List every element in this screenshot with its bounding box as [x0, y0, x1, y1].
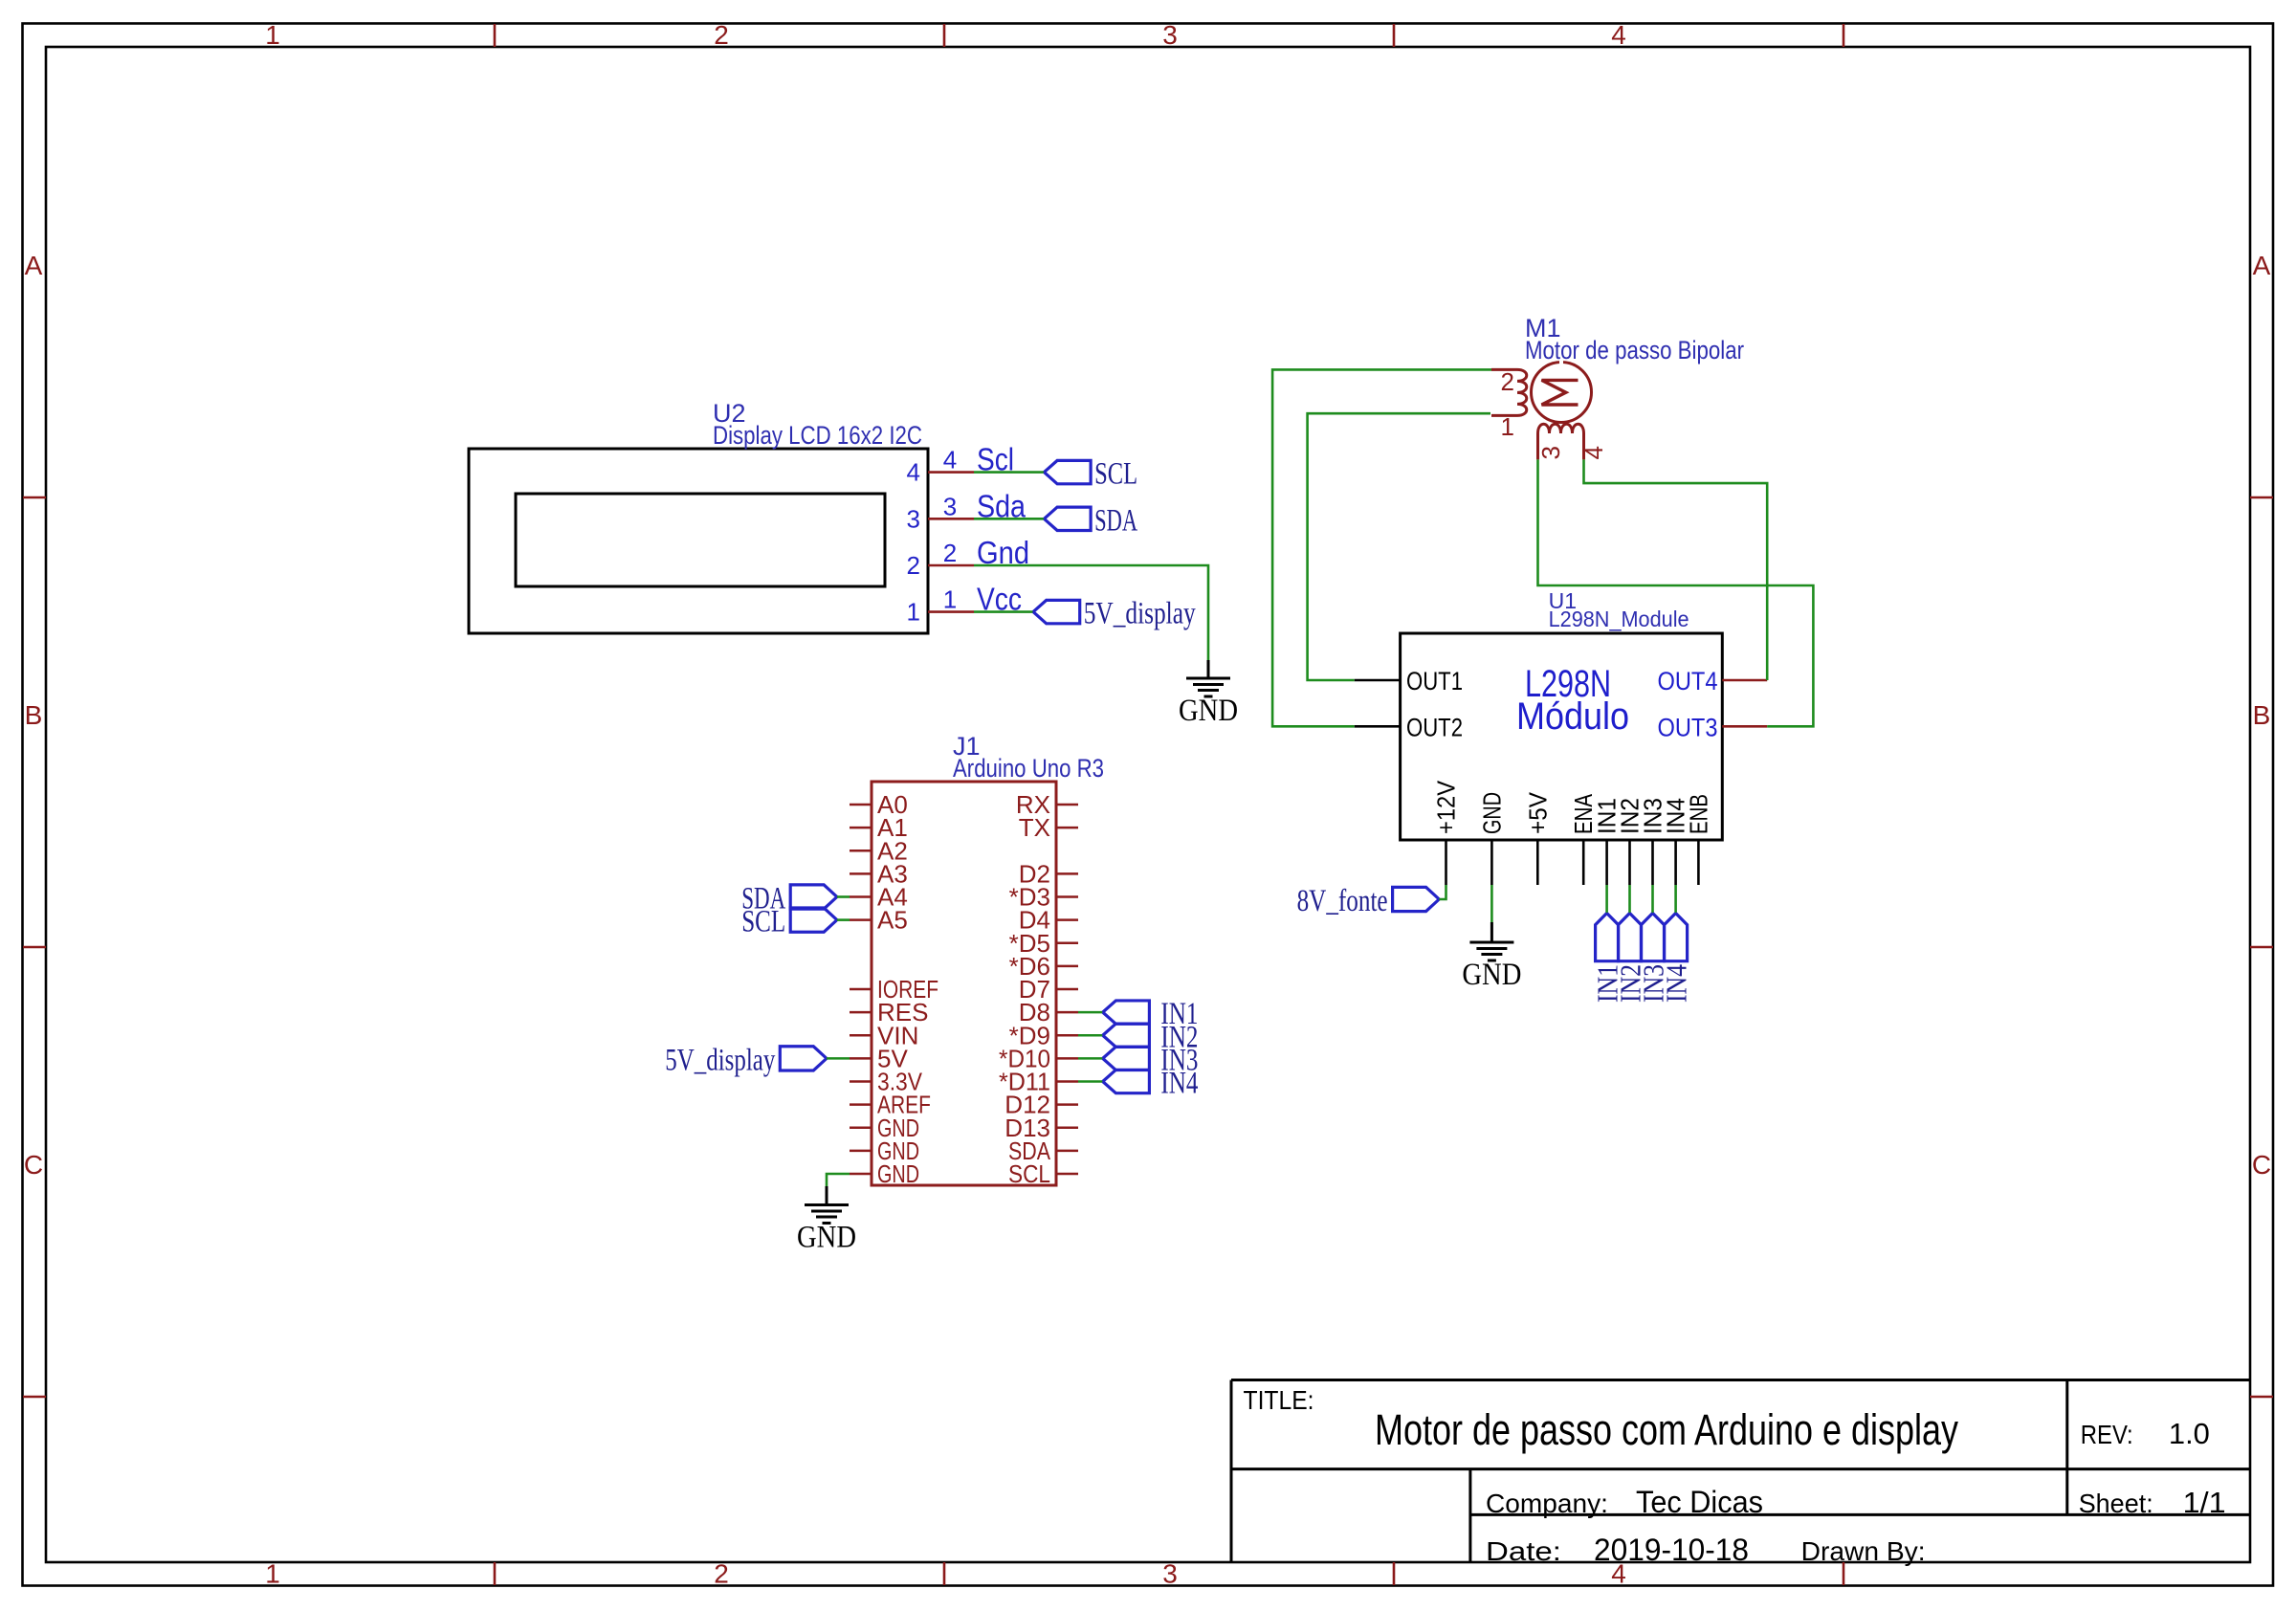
svg-text:SCL: SCL [1094, 457, 1137, 492]
svg-text:TITLE:: TITLE: [1244, 1385, 1314, 1415]
U1 bottom pin IN4 [1674, 840, 1677, 885]
J1 left pin GND [850, 1126, 872, 1129]
J1 right pin D12 [1056, 1103, 1078, 1106]
U1 bottom pin IN2 [1628, 840, 1631, 885]
wire D11 to IN4 flag [1078, 1080, 1103, 1083]
wire U1 IN2 pin to flag [1628, 885, 1631, 914]
svg-text:4: 4 [943, 446, 957, 474]
svg-text:+5V: +5V [1523, 791, 1552, 834]
svg-text:2: 2 [1501, 367, 1514, 396]
U2 pin 1 (Vcc) [928, 610, 974, 613]
J1 right pin *D9 [1056, 1034, 1078, 1037]
svg-text:SCL: SCL [741, 905, 785, 939]
net flag SDA at A4 [790, 885, 837, 909]
svg-text:GND: GND [1179, 694, 1238, 728]
net flag IN3 (under U1) [1642, 914, 1665, 961]
U1 pin OUT1 [1355, 679, 1401, 682]
component U1 L298N_Module [1401, 633, 1723, 840]
net flag IN1 [1103, 1001, 1150, 1024]
svg-text:5V_display: 5V_display [665, 1043, 775, 1077]
J1 left pin GND [850, 1150, 872, 1153]
U2 pin 4 (Scl) [928, 471, 974, 474]
J1 left pin A1 [850, 827, 872, 829]
J1 left pin A3 [850, 872, 872, 875]
svg-text:3: 3 [1162, 1559, 1178, 1589]
svg-text:SCL: SCL [1008, 1159, 1050, 1188]
svg-text:3: 3 [943, 492, 957, 520]
wire Gnd to ground [974, 565, 1208, 660]
U1 bottom pin ENB [1697, 840, 1700, 885]
ground GND (display) [1207, 660, 1210, 678]
svg-text:5V_display: 5V_display [1084, 597, 1196, 631]
svg-text:A: A [25, 251, 43, 280]
J1 left pin IOREF [850, 988, 872, 991]
net flag IN3 [1103, 1047, 1150, 1070]
net flag 5V_display at 5V [780, 1047, 827, 1070]
svg-text:+12V: +12V [1432, 780, 1461, 834]
svg-text:Tec Dicas: Tec Dicas [1636, 1485, 1763, 1519]
svg-text:Drawn By:: Drawn By: [1801, 1536, 1926, 1566]
wire Sda to SDA flag [974, 518, 1044, 520]
J1 left pin A4 [850, 895, 872, 898]
svg-text:Company:: Company: [1486, 1489, 1608, 1518]
frame tick marks [494, 24, 497, 47]
J1 left pin VIN [850, 1034, 872, 1037]
U1 bottom pin IN3 [1651, 840, 1654, 885]
J1 left pin A5 [850, 918, 872, 921]
svg-text:8V_fonte: 8V_fonte [1297, 884, 1388, 918]
J1 right pin RX [1056, 804, 1078, 806]
U1 bottom pin GND [1490, 840, 1493, 885]
J1 left pin 3.3V [850, 1080, 872, 1083]
svg-text:OUT3: OUT3 [1658, 713, 1718, 741]
svg-text:Motor de passo com Arduino e d: Motor de passo com Arduino e display [1375, 1405, 1958, 1454]
wire D8 to IN1 flag [1078, 1011, 1103, 1014]
svg-text:3: 3 [1536, 446, 1565, 459]
U1 bottom pin +12V [1445, 840, 1447, 885]
U2 pin 2 (Gnd) [928, 564, 974, 567]
svg-text:1: 1 [907, 598, 920, 627]
svg-text:A5: A5 [877, 906, 908, 935]
svg-text:ENB: ENB [1684, 794, 1712, 834]
wire D9 to IN2 flag [1078, 1034, 1103, 1037]
J1 right pin D2 [1056, 872, 1078, 875]
net flag 5V_display [1033, 600, 1080, 623]
U1 bottom pin ENA [1582, 840, 1585, 885]
svg-text:SDA: SDA [1094, 503, 1137, 538]
M1 coil B (pins 3,4) [1538, 424, 1584, 459]
wire Scl to SCL flag [974, 471, 1044, 474]
wire M1 pin1 to OUT1 [1308, 413, 1490, 680]
net flag 8V_fonte [1393, 887, 1440, 911]
wire GND pin to ground [827, 1174, 850, 1186]
U1 pin OUT2 [1355, 725, 1401, 728]
svg-text:Motor de passo Bipolar: Motor de passo Bipolar [1525, 336, 1744, 364]
svg-text:2: 2 [714, 1559, 729, 1589]
wire 8V_fonte to +12V [1439, 885, 1446, 899]
wire M1 pin3 to OUT3 [1538, 459, 1814, 726]
J1 right pin *D11 [1056, 1080, 1078, 1083]
svg-text:REV:: REV: [2081, 1420, 2133, 1449]
net flag IN2 (under U1) [1619, 914, 1642, 961]
svg-text:4: 4 [907, 458, 920, 487]
svg-text:L298N_Module: L298N_Module [1549, 607, 1689, 631]
svg-text:IN4: IN4 [1660, 964, 1693, 1003]
svg-text:1: 1 [265, 1559, 280, 1589]
wire Vcc to 5V_display flag [974, 610, 1033, 613]
svg-text:Arduino Uno R3: Arduino Uno R3 [953, 754, 1104, 783]
svg-text:3: 3 [907, 504, 920, 533]
U1 bottom pin IN1 [1605, 840, 1608, 885]
J1 right pin D8 [1056, 1011, 1078, 1014]
ground GND (arduino) [826, 1186, 828, 1205]
J1 left pin 5V [850, 1057, 872, 1060]
wire 5V_display flag to 5V pin [827, 1057, 850, 1060]
net flag IN1 (under U1) [1596, 914, 1619, 961]
J1 right pin *D5 [1056, 941, 1078, 944]
motor circle with M [1532, 363, 1592, 423]
svg-text:4: 4 [1611, 20, 1626, 50]
U1 bottom pin +5V [1536, 840, 1539, 885]
svg-text:1: 1 [265, 20, 280, 50]
U1 pin OUT3 [1722, 725, 1767, 728]
J1 right pin D7 [1056, 988, 1078, 991]
svg-text:GND: GND [797, 1221, 856, 1255]
wire M1 pin4 to OUT4 [1584, 459, 1768, 680]
J1 left pin GND [850, 1173, 872, 1176]
J1 left pin RES [850, 1011, 872, 1014]
net flag IN4 [1103, 1070, 1150, 1092]
ground GND (L298N) [1490, 922, 1493, 942]
svg-text:4: 4 [1579, 446, 1608, 459]
svg-text:Sheet:: Sheet: [2079, 1489, 2153, 1518]
J1 left pin AREF [850, 1103, 872, 1106]
wire D10 to IN3 flag [1078, 1057, 1103, 1060]
svg-text:A: A [2253, 251, 2271, 280]
svg-text:OUT1: OUT1 [1406, 667, 1463, 695]
J1 right pin *D3 [1056, 895, 1078, 898]
svg-text:3: 3 [1162, 20, 1178, 50]
wire U1 IN3 pin to flag [1651, 885, 1654, 914]
wire SDA flag to A4 [837, 895, 850, 898]
net flag SCL [1044, 460, 1091, 483]
svg-text:1.0: 1.0 [2169, 1417, 2210, 1450]
svg-text:2019-10-18: 2019-10-18 [1594, 1533, 1749, 1567]
component J1 Arduino Uno R3 [872, 782, 1056, 1185]
svg-text:C: C [2252, 1150, 2271, 1180]
J1 left pin A0 [850, 804, 872, 806]
net flag IN2 [1103, 1024, 1150, 1047]
J1 right pin TX [1056, 827, 1078, 829]
svg-text:Date:: Date: [1486, 1536, 1561, 1566]
wire U1 IN1 pin to flag [1605, 885, 1608, 914]
wire U1 IN4 pin to flag [1674, 885, 1677, 914]
svg-text:GND: GND [1462, 958, 1521, 992]
component U2 Display LCD 16x2 I2C [469, 449, 928, 633]
svg-text:OUT2: OUT2 [1406, 713, 1463, 741]
wire U1 GND to ground [1490, 885, 1493, 922]
svg-text:IN4: IN4 [1160, 1067, 1198, 1101]
svg-text:GND: GND [1477, 792, 1506, 834]
svg-text:2: 2 [714, 20, 729, 50]
U2 pin 3 (Sda) [928, 518, 974, 520]
svg-text:Display LCD 16x2 I2C: Display LCD 16x2 I2C [713, 421, 922, 450]
J1 right pin SCL [1056, 1173, 1078, 1176]
net flag IN4 (under U1) [1665, 914, 1688, 961]
svg-text:1/1: 1/1 [2183, 1486, 2226, 1519]
net flag SCL at A5 [790, 908, 837, 932]
J1 right pin D4 [1056, 918, 1078, 921]
J1 right pin *D10 [1056, 1057, 1078, 1060]
svg-text:B: B [25, 700, 43, 730]
svg-text:2: 2 [943, 539, 957, 567]
svg-text:1: 1 [943, 585, 957, 614]
wire M1 pin2 to OUT2 [1272, 369, 1491, 726]
title block [1231, 1379, 2250, 1381]
M1 coil A (pins 2,1) [1491, 369, 1527, 415]
J1 left pin A2 [850, 850, 872, 852]
svg-text:OUT4: OUT4 [1658, 667, 1718, 695]
svg-text:Módulo: Módulo [1516, 695, 1629, 738]
U1 pin OUT4 [1722, 679, 1767, 682]
wire SCL flag to A5 [837, 918, 850, 921]
svg-text:1: 1 [1501, 412, 1514, 441]
net flag SDA [1044, 507, 1091, 530]
svg-text:GND: GND [877, 1159, 919, 1188]
J1 right pin *D6 [1056, 965, 1078, 968]
J1 right pin D13 [1056, 1126, 1078, 1129]
svg-text:B: B [2253, 700, 2271, 730]
J1 right pin SDA [1056, 1150, 1078, 1153]
svg-text:C: C [24, 1150, 43, 1180]
svg-text:TX: TX [1019, 813, 1050, 842]
svg-text:2: 2 [907, 551, 920, 580]
